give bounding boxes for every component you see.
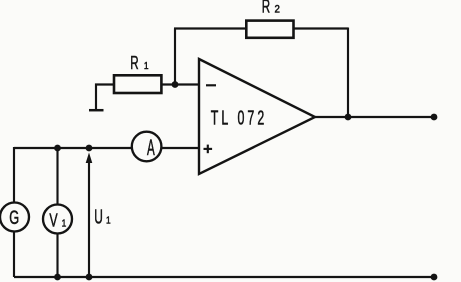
svg-text:V: V [49, 211, 58, 231]
wire R1 to op-amp inverting input y=84.5 [162, 83, 200, 85]
svg-text:1: 1 [62, 218, 67, 230]
svg-text:R: R [130, 54, 138, 74]
pin plus non-inverting input marker [204, 145, 213, 154]
svg-text:R: R [262, 0, 270, 17]
arrow U1 voltage arrow [86, 153, 93, 278]
wire V1 branch vertical [56, 148, 58, 277]
svg-text:2: 2 [275, 4, 281, 16]
ammeter A [132, 132, 162, 162]
generator G [0, 203, 29, 232]
wire op-amp output y=117 [315, 116, 434, 118]
node junction feedback tap [172, 81, 179, 88]
resistor R2 [246, 21, 293, 38]
wire feedback top left y=28.5 [174, 27, 246, 29]
wire feedback top right y=28.5 [293, 27, 349, 29]
ground [89, 85, 113, 111]
resistor R1 [114, 75, 161, 93]
svg-text:1: 1 [144, 60, 149, 72]
svg-text:TL 072: TL 072 [211, 106, 268, 129]
node junction U1 bottom [86, 274, 93, 281]
pin minus inverting input marker [206, 84, 216, 86]
node junction feedback to output [345, 114, 352, 121]
op-amp U1 TL072 [199, 59, 315, 174]
node output terminal bottom right [431, 274, 438, 281]
node junction V1 top [54, 145, 61, 152]
label R1 [130, 54, 148, 74]
node junction U1 top [86, 145, 93, 152]
wire feedback vertical down x=348 [347, 28, 349, 118]
node output terminal right [431, 114, 438, 121]
label U1 [94, 207, 110, 229]
svg-text:G: G [9, 206, 19, 229]
wire feedback vertical up x=175 [174, 29, 176, 85]
node junction V1 bottom [54, 274, 61, 281]
label R2 [262, 0, 280, 17]
wire top rail non-inverting input y=148 [14, 147, 199, 149]
voltmeter V1 [43, 205, 72, 234]
wire bottom rail y=277 [14, 276, 434, 278]
svg-text:A: A [147, 135, 155, 160]
svg-text:U: U [94, 207, 103, 229]
svg-text:1: 1 [106, 214, 111, 226]
wire left branch G vertical [13, 147, 15, 277]
